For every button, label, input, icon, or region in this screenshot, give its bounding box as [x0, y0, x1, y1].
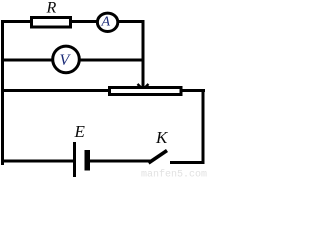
battery E negative plate (short thick): [85, 150, 91, 171]
svg-text:E: E: [74, 122, 86, 141]
svg-text:R: R: [46, 0, 57, 16]
ammeter U1: [97, 13, 117, 31]
wire: ammeter to top-right corner: [118, 20, 145, 23]
wire: vertical drop to rheostat wiper: [142, 20, 145, 88]
wire: voltmeter branch left: [1, 59, 53, 62]
svg-text:A: A: [101, 14, 111, 29]
wire: battery to switch: [90, 160, 151, 163]
battery E positive plate (long): [73, 142, 76, 177]
wire: voltmeter branch right to vertical drop: [79, 59, 145, 62]
wire: top left segment to resistor: [1, 20, 31, 23]
wire: rheostat to right corner: [181, 89, 205, 92]
resistor R: [32, 18, 71, 28]
voltmeter U2: [53, 46, 80, 73]
svg-text:manfen5.com: manfen5.com: [141, 169, 207, 181]
svg-text:K: K: [155, 128, 169, 147]
wire: left vertical bus: [1, 20, 4, 165]
wire: right vertical bus: [202, 89, 205, 164]
rheostat RP body: [110, 88, 182, 95]
wire: bottom left segment to battery: [1, 160, 73, 163]
wire: resistor to ammeter: [72, 20, 97, 23]
wire: middle left segment to rheostat: [1, 89, 110, 92]
switch K blade: [149, 151, 168, 164]
wiper arrow onto rheostat: [138, 84, 149, 90]
wire: switch to bottom-right corner: [170, 161, 205, 164]
